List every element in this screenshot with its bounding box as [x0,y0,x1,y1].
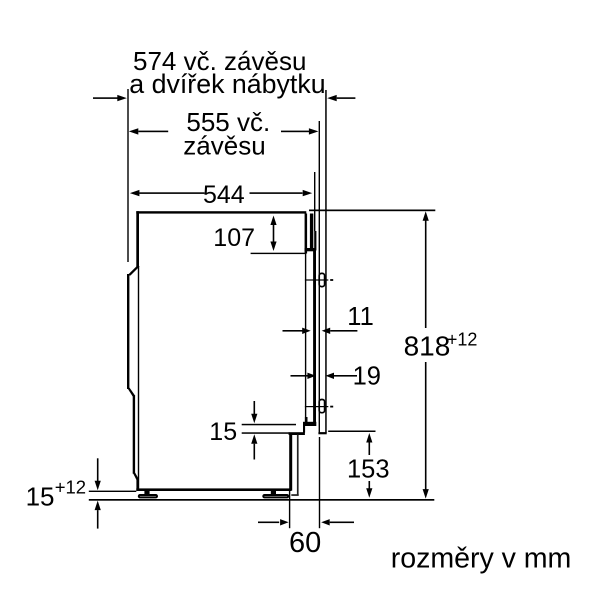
svg-text:a dvířek nábytku: a dvířek nábytku [129,69,325,99]
front door hinge-side thick segment [314,231,316,251]
left foot base [139,495,157,497]
svg-text:107: 107 [213,224,255,252]
machine back jog diagonal [127,388,135,397]
extension line 818 top [309,210,435,212]
svg-text:60: 60 [289,527,321,559]
dim 60 left arrow [258,522,279,524]
furniture door front line [325,90,327,433]
machine back inner line [138,267,139,488]
extension line 60 right [319,437,320,528]
front step cap [289,432,305,435]
dim 15+12 top arrow [97,458,99,481]
plinth channel right line [297,434,299,495]
machine back bottom corner [136,478,139,491]
front panel lower thickening [305,417,308,423]
front door bottom cap [303,422,316,426]
dim 555 right arrow [281,131,309,133]
right foot base [263,495,288,497]
machine back bottom jog [133,473,139,480]
machine upper back edge [136,211,139,268]
dim 818 line top [423,211,429,221]
furniture door back line [319,121,320,433]
dim 19 left arrow [291,375,309,377]
dim 574 right arrow [327,95,337,101]
dim 19 right arrow [326,373,335,379]
machine back step diagonal [127,266,140,275]
plinth front edge [289,433,292,491]
machine front panel thick top part [305,214,308,254]
line 15 lower [242,432,290,434]
dim 544 left arrow [130,190,140,196]
dim 153 line top [366,433,372,443]
dim 555 left arrow [129,128,139,134]
dim 15 bottom arrow [251,434,257,444]
dim 544 right arrow [250,192,303,194]
dim 15+12 bottom arrow [95,501,101,511]
line 15 upper [242,424,296,426]
svg-text:rozměry v mm: rozměry v mm [391,542,572,574]
svg-text:544: 544 [203,181,245,209]
dim 818 line bottom [425,362,427,490]
dim 60 right arrow [321,519,330,525]
svg-text:818: 818 [404,330,451,361]
front door thick line top section [310,214,313,252]
hinge 1 [319,273,324,286]
line 107 reference [251,253,306,254]
dim 11 right arrow [322,328,331,334]
extension line left (574/555/544) [127,89,128,262]
hinge 2 [319,400,324,413]
extension line 153 top [328,431,375,433]
svg-text:+12: +12 [447,329,478,349]
plinth channel bottom cap [291,494,298,496]
floor line [89,499,435,501]
machine bottom edge [136,488,291,491]
front door thick line [313,251,316,426]
svg-text:15: 15 [209,418,237,446]
machine lower back outer edge (lower part) [133,395,135,474]
front bracket bottom bar [305,248,315,251]
machine top edge [136,211,306,213]
hinge 2 centerline [305,406,328,407]
dim 107 arrow [270,216,276,226]
machine front panel line [305,214,306,424]
svg-text:+12: +12 [55,476,86,497]
extension line 544 right [314,172,315,231]
extension line bottom left [89,491,137,492]
dim 574 left arrow [93,97,118,99]
front step vertical [303,426,305,433]
svg-text:153: 153 [347,455,390,483]
right foot stem [271,491,276,495]
left foot stem [144,491,149,495]
svg-text:15: 15 [26,482,55,512]
extension line 60 left [289,491,290,528]
hinge 1 centerline [305,279,328,280]
svg-text:19: 19 [353,363,381,391]
dim 11 left arrow [283,330,304,332]
svg-text:11: 11 [347,303,373,331]
dim 15 top arrow [254,401,256,415]
machine lower back outer edge (upper part) [127,274,129,389]
furniture door bottom cap [318,432,326,434]
svg-text:závěsu: závěsu [183,130,265,160]
dim 153 line bottom [369,481,371,490]
